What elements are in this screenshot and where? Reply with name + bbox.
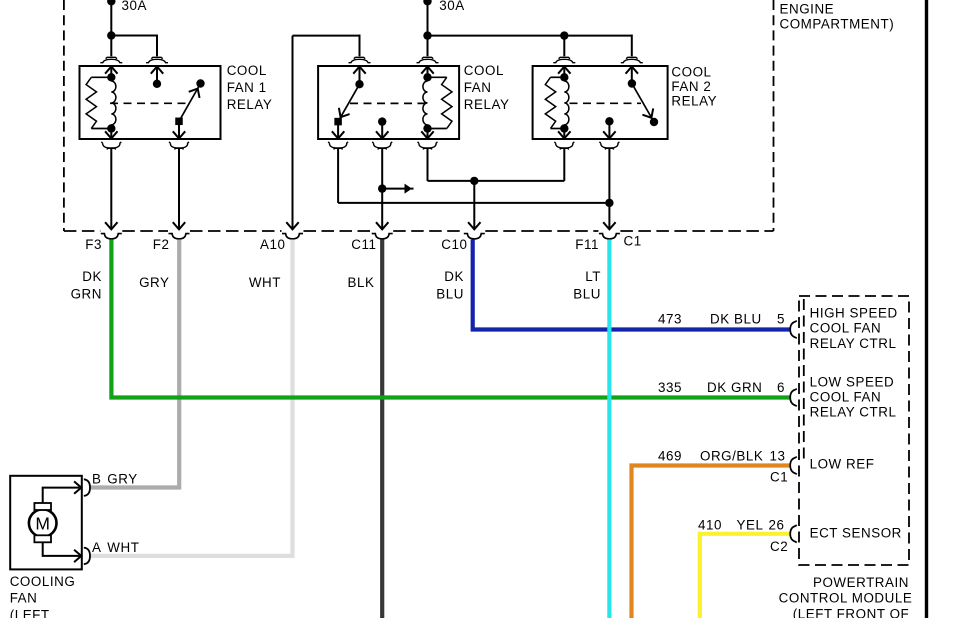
svg-text:ECT SENSOR: ECT SENSOR xyxy=(810,526,902,541)
relay2 fixed contact pin arrow xyxy=(381,122,383,139)
svg-text:C2: C2 xyxy=(770,539,788,554)
relay3 coil top node dot xyxy=(560,73,568,81)
wire fuse1 branch to relay1 switch feed xyxy=(111,35,157,37)
svg-text:LOW REF: LOW REF xyxy=(810,457,875,472)
relay2 coil top pin arrow xyxy=(421,67,433,74)
relay1 mech dashed link xyxy=(110,102,187,104)
relay3 coil bottom node dot xyxy=(560,124,568,132)
svg-text:B: B xyxy=(92,472,101,487)
svg-text:C10: C10 xyxy=(441,237,467,252)
wire 335 DK GRN (F3 to PCM pin6) xyxy=(111,240,790,398)
svg-text:COOL: COOL xyxy=(671,65,711,80)
relay1 coil top pin arrow xyxy=(105,67,117,74)
connector below relay2 coil pin xyxy=(418,142,438,148)
svg-text:LOW SPEED: LOW SPEED xyxy=(810,375,895,390)
wire relay2 fixed pin to C11 xyxy=(381,148,383,229)
arrow into A10 connector xyxy=(286,222,298,229)
svg-text:ORG/BLK: ORG/BLK xyxy=(700,449,763,464)
connector F3 xyxy=(101,234,122,239)
relay2 coil top node dot xyxy=(423,73,431,81)
relay2 switch feed pin arrow xyxy=(353,67,365,74)
relay box COOL FAN 2 RELAY xyxy=(533,66,668,139)
wire fuse1 to relay1 coil xyxy=(110,36,112,57)
engine compartment dashed border, right side xyxy=(773,0,775,231)
connector above relay2 coil pin xyxy=(422,57,433,58)
svg-text:26: 26 xyxy=(769,517,785,532)
relay1 switch blade arrow xyxy=(189,86,203,98)
svg-text:DK: DK xyxy=(82,269,102,284)
arrow into C10 xyxy=(468,222,480,229)
wire fuse2 down xyxy=(427,1,429,35)
connector F11 xyxy=(599,234,620,239)
connector above relay1 switch-feed pin xyxy=(151,57,162,58)
connector below relay1 coil pin xyxy=(101,142,121,148)
wire GRY (F2 to fan B) xyxy=(91,240,180,488)
motor brush top xyxy=(34,503,51,510)
relay box COOL FAN RELAY xyxy=(318,66,459,139)
wire fuse1 down xyxy=(110,1,112,35)
fuse 30A (left) top terminal dot xyxy=(107,0,115,5)
svg-text:CONTROL MODULE: CONTROL MODULE xyxy=(779,591,913,606)
PCM pin 13 connector xyxy=(790,457,797,474)
wire relay3 fixed pin to F11 xyxy=(608,148,610,229)
wire C10 drop xyxy=(473,181,475,229)
svg-text:DK GRN: DK GRN xyxy=(707,380,762,395)
svg-text:LT: LT xyxy=(585,269,601,284)
svg-text:RELAY CTRL: RELAY CTRL xyxy=(810,336,897,351)
connector above relay3 coil pin xyxy=(559,57,570,58)
svg-text:COOLING: COOLING xyxy=(10,574,76,589)
fuse 30A (right) top terminal dot xyxy=(423,0,431,5)
svg-text:COOL FAN: COOL FAN xyxy=(810,390,882,405)
svg-text:BLU: BLU xyxy=(573,287,601,302)
relay2 coil bottom pin arrow xyxy=(427,129,429,139)
connector below relay2 switch pin xyxy=(328,142,348,148)
svg-text:6: 6 xyxy=(777,380,785,395)
relay1 coil resistor zigzag xyxy=(91,76,111,78)
relay3 coil top pin arrow xyxy=(558,67,570,74)
arrow into C11 xyxy=(376,222,388,229)
cooling fan box xyxy=(10,476,82,570)
connector below relay3 coil pin xyxy=(554,142,574,148)
svg-text:C1: C1 xyxy=(624,234,642,249)
fan connector pin A xyxy=(74,550,81,562)
svg-text:C1: C1 xyxy=(770,470,788,485)
svg-text:BLU: BLU xyxy=(436,287,464,302)
relay1 switch blade xyxy=(179,84,201,122)
relay3 switch feed pin arrow xyxy=(626,67,638,74)
svg-text:RELAY CTRL: RELAY CTRL xyxy=(810,405,897,420)
relay1 switch bottom pin arrow xyxy=(178,121,180,138)
relay3 fixed contact pin arrow xyxy=(608,121,610,138)
svg-text:COOL FAN: COOL FAN xyxy=(810,321,882,336)
PCM pin 26 connector xyxy=(790,525,797,542)
svg-text:30A: 30A xyxy=(122,0,147,13)
wire bus drop to relay3 coil xyxy=(563,36,565,57)
wire relay1 coil to F3 xyxy=(110,148,112,229)
svg-text:DK BLU: DK BLU xyxy=(710,311,762,326)
svg-text:COOL: COOL xyxy=(227,63,267,78)
node C11 off-page junction dot xyxy=(378,184,386,192)
relay3 switch feed contact dot xyxy=(628,79,636,87)
relay3 coil winding xyxy=(564,81,569,125)
svg-text:5: 5 xyxy=(777,311,785,326)
svg-text:GRN: GRN xyxy=(71,287,102,302)
motor M1 circle xyxy=(29,509,57,537)
svg-text:335: 335 xyxy=(658,380,682,395)
node fuse1 junction dot xyxy=(107,31,115,39)
wire 473 DK BLU (C10 to PCM pin5) xyxy=(473,240,790,330)
fan connector pin B xyxy=(74,481,81,493)
wire WHT (A10 to fan A) xyxy=(91,240,293,556)
svg-text:RELAY: RELAY xyxy=(227,97,273,112)
relay2 coil bottom node dot xyxy=(423,124,431,132)
connector above relay2 switch pin xyxy=(354,57,365,58)
arrow into F2 xyxy=(173,222,185,229)
relay box COOL FAN 1 RELAY xyxy=(80,66,221,139)
svg-text:13: 13 xyxy=(770,449,786,464)
relay3 mech dashed link xyxy=(570,102,642,104)
svg-text:WHT: WHT xyxy=(107,540,139,555)
svg-text:FAN 1: FAN 1 xyxy=(227,80,267,95)
svg-text:COOL: COOL xyxy=(464,63,504,78)
PCM pin 5 connector xyxy=(790,321,797,338)
svg-text:ENGINE: ENGINE xyxy=(780,1,835,16)
svg-text:(LEFT FRONT OF: (LEFT FRONT OF xyxy=(793,606,910,618)
relay1 coil bottom pin arrow xyxy=(110,129,112,139)
relay2 switch feed contact dot xyxy=(355,80,363,88)
relay3 switch blade arrow xyxy=(642,108,656,120)
relay2 coil winding xyxy=(423,81,428,125)
connector below relay1 switch pin xyxy=(169,142,189,148)
connector C10 xyxy=(464,234,485,239)
svg-text:POWERTRAIN: POWERTRAIN xyxy=(813,575,909,590)
relay3 switch end contact dot xyxy=(650,118,658,126)
relay2 switch moving contact square xyxy=(334,118,342,126)
svg-text:F2: F2 xyxy=(153,237,170,252)
relay1 switch moving contact square xyxy=(175,118,183,126)
svg-text:F3: F3 xyxy=(85,237,102,252)
svg-text:WHT: WHT xyxy=(249,275,281,290)
arrow into F11 xyxy=(603,222,615,229)
svg-text:473: 473 xyxy=(658,311,682,326)
relay1 coil bottom node dot xyxy=(107,124,115,132)
connector above relay3 switch pin xyxy=(626,57,637,58)
svg-text:C11: C11 xyxy=(351,237,376,252)
connector below relay2 fixed pin xyxy=(372,142,392,148)
connector below relay3 fixed pin xyxy=(599,142,619,148)
svg-text:HIGH SPEED: HIGH SPEED xyxy=(810,306,898,321)
wire 410 YEL (PCM pin26 down) xyxy=(700,534,790,618)
svg-text:30A: 30A xyxy=(439,0,464,13)
PCM connector C1 inner dashed line xyxy=(803,299,805,459)
wire A10 riser xyxy=(292,36,294,229)
svg-text:YEL: YEL xyxy=(737,517,764,532)
svg-text:A10: A10 xyxy=(260,237,285,252)
connector C11 xyxy=(372,234,393,239)
node F11 junction dot xyxy=(605,199,613,207)
relay2 switch blade xyxy=(338,84,359,121)
node feed bus junction at relay3 coil xyxy=(560,31,568,39)
relay1 coil winding xyxy=(111,81,116,125)
svg-text:A: A xyxy=(92,540,101,555)
relay1 switch fixed contact dot xyxy=(196,79,204,87)
arrow into F3 xyxy=(105,222,117,229)
svg-text:469: 469 xyxy=(658,449,682,464)
relay1 switch feed pin arrow xyxy=(151,67,163,74)
relay3 coil resistor zigzag xyxy=(551,76,565,78)
svg-text:410: 410 xyxy=(698,517,722,532)
engine compartment dashed border, bottom side xyxy=(64,230,100,232)
fan motor wires inside box xyxy=(43,488,80,503)
wire LT BLU (F11 down) xyxy=(607,240,611,618)
svg-text:RELAY: RELAY xyxy=(464,97,510,112)
PCM pin 6 connector xyxy=(790,389,797,406)
relay2 switch blade arrow xyxy=(335,108,349,120)
svg-text:(LEFT: (LEFT xyxy=(10,608,50,618)
connector A10 xyxy=(282,234,303,239)
powertrain control module dashed box xyxy=(799,296,909,565)
svg-text:RELAY: RELAY xyxy=(671,94,717,109)
relay3 switch blade xyxy=(632,84,654,123)
svg-text:F11: F11 xyxy=(575,237,599,252)
relay1 switch feed contact dot xyxy=(153,80,161,88)
connector F2 xyxy=(169,234,190,239)
relay2 coil resistor zigzag xyxy=(428,76,447,78)
svg-text:BLK: BLK xyxy=(348,275,375,290)
svg-text:COMPARTMENT): COMPARTMENT) xyxy=(780,17,895,32)
wire relay2 switch to F11 bus xyxy=(337,148,339,203)
svg-text:FAN: FAN xyxy=(10,590,38,605)
engine compartment dashed border, left side xyxy=(63,0,65,231)
wire 469 ORG/BLK (PCM pin13 down) xyxy=(632,466,791,618)
node C10 junction dot xyxy=(470,177,478,185)
svg-text:GRY: GRY xyxy=(139,275,169,290)
relay1 coil top node dot xyxy=(107,73,115,81)
relay2 switch bottom pin arrow xyxy=(337,122,339,139)
svg-text:FAN: FAN xyxy=(464,80,492,95)
page edge solid line xyxy=(925,0,928,618)
wire relay2 coil to junction bus xyxy=(427,148,429,181)
motor brush bottom xyxy=(34,535,51,542)
connector above relay1 coil pin xyxy=(106,57,117,58)
svg-text:FAN 2: FAN 2 xyxy=(671,79,711,94)
wire bus drop to relay3 switch xyxy=(631,35,633,57)
wire relay1 switch to F2 xyxy=(178,148,180,229)
node fuse2 junction dot xyxy=(423,31,431,39)
wire relay3 coil drop xyxy=(563,148,565,181)
relay3 coil bottom pin arrow xyxy=(563,129,565,139)
wire BLK (C11 down) xyxy=(380,240,384,618)
svg-text:DK: DK xyxy=(444,269,464,284)
svg-text:GRY: GRY xyxy=(107,472,137,487)
relay2 fixed contact dot xyxy=(378,117,386,125)
off-page arrow from C11 node xyxy=(382,188,406,190)
svg-text:M: M xyxy=(35,513,50,533)
wire bus drop to relay2 coil xyxy=(427,36,429,57)
wire fuse2 feed bus to relay3 xyxy=(428,35,632,37)
relay2 mech dashed link xyxy=(350,102,427,104)
relay3 fixed contact dot xyxy=(605,117,613,125)
